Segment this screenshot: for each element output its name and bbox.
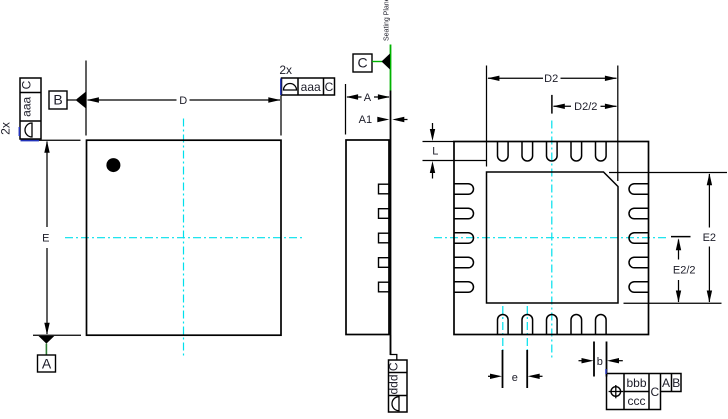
- feature control frame top right (profile aaa C): [282, 78, 335, 95]
- dimension A line: [346, 94, 390, 99]
- datum B symbol: [49, 91, 86, 109]
- svg-text:2x: 2x: [279, 63, 292, 77]
- bottom edge terminals: [498, 314, 607, 334]
- svg-text:D2/2: D2/2: [574, 101, 597, 113]
- svg-text:E2: E2: [703, 232, 716, 244]
- svg-text:e: e: [512, 372, 518, 384]
- svg-text:b: b: [597, 356, 603, 368]
- dimension D2/2 extension tick: [551, 95, 553, 114]
- count label 2x top right: [279, 63, 292, 77]
- svg-text:A: A: [662, 376, 670, 390]
- svg-text:B: B: [672, 376, 680, 390]
- feature control frame bottom (profile ddd C): [387, 360, 408, 412]
- dimension E2/2 line: [676, 238, 681, 302]
- svg-text:L: L: [432, 146, 438, 158]
- dimension L arrows: [430, 123, 435, 179]
- dimension D label: [179, 95, 187, 107]
- dimension e label: [512, 372, 518, 384]
- side view body outline: [346, 140, 389, 335]
- svg-text:ddd: ddd: [387, 374, 401, 394]
- top view: vertical centerline: [183, 119, 185, 357]
- bottom view: horizontal centerline: [434, 237, 668, 239]
- top view: horizontal centerline: [65, 237, 302, 239]
- dimension D extension line right: [280, 96, 282, 136]
- dimension A label: [364, 92, 372, 104]
- dimension A1 label: [359, 114, 372, 126]
- dimension D line: [87, 97, 280, 102]
- dimension L extension lines: [423, 142, 487, 161]
- dimension E extension line bottom: [33, 334, 81, 336]
- dimension D2/2 label: [574, 101, 597, 113]
- svg-text:A: A: [364, 92, 372, 104]
- svg-text:aaa: aaa: [20, 96, 34, 116]
- bottom view package outline: [454, 142, 649, 335]
- svg-text:E2/2: E2/2: [673, 265, 696, 277]
- datum C symbol: [353, 54, 390, 73]
- svg-text:E: E: [42, 232, 49, 244]
- svg-text:C: C: [357, 55, 367, 71]
- svg-text:Seating Plane: Seating Plane: [384, 0, 391, 41]
- count label 2x left (rotated): [0, 122, 13, 135]
- svg-text:D: D: [179, 95, 187, 107]
- dimension E2/2 label: [673, 265, 696, 277]
- dimension E2 extension lines: [609, 173, 727, 304]
- pin 1 index dot: [106, 158, 120, 172]
- dimension b extension lines: [594, 342, 607, 377]
- terminal 1 centerline: [502, 306, 504, 352]
- dimension E2 label: [703, 232, 716, 244]
- position tolerance frame (bbb ccc C A B): [607, 374, 682, 410]
- svg-text:C: C: [20, 80, 34, 89]
- terminal 2 centerline: [526, 306, 528, 352]
- svg-text:C: C: [325, 80, 334, 94]
- svg-text:A1: A1: [359, 114, 372, 126]
- seating plane line: [390, 45, 392, 356]
- side view terminals: [379, 184, 391, 292]
- svg-text:C: C: [387, 362, 401, 371]
- dimension E extension line top: [21, 139, 81, 141]
- dimension b arrows: [579, 358, 623, 363]
- dimension E2/2 extension tick: [671, 236, 691, 238]
- svg-text:A: A: [42, 355, 52, 371]
- top edge terminals: [498, 142, 607, 162]
- leader to ddd frame: [391, 335, 397, 360]
- dimension D2 label: [544, 73, 558, 85]
- blue tick at top right frame: [280, 79, 282, 96]
- dimension D2 line: [487, 76, 617, 81]
- dimension L label: [432, 146, 438, 158]
- dimension b label: [597, 356, 603, 368]
- top view package body outline: [87, 140, 282, 335]
- right edge terminals: [629, 184, 649, 293]
- blue tick marks at left frame: [19, 127, 39, 141]
- exposed pad outline with pin1 chamfer: [487, 172, 619, 303]
- svg-text:2x: 2x: [0, 122, 13, 135]
- dimension E2 line: [707, 173, 712, 302]
- svg-text:bbb: bbb: [626, 376, 646, 390]
- dimension D2/2 line: [553, 104, 617, 109]
- dimension E line: [44, 141, 49, 335]
- left edge terminals: [454, 184, 474, 293]
- blue tick at position frame: [605, 369, 607, 374]
- svg-text:D2: D2: [544, 73, 558, 85]
- dimension A extension line: [345, 84, 347, 135]
- datum A symbol: [38, 336, 56, 372]
- svg-text:ccc: ccc: [628, 394, 646, 408]
- dimension D extension line left: [85, 61, 87, 136]
- dimension e arrows: [488, 374, 543, 379]
- seating plane label: [384, 0, 391, 41]
- feature control frame left (profile aaa C): [20, 78, 42, 139]
- dimension E label: [42, 232, 49, 244]
- svg-text:B: B: [53, 92, 62, 108]
- bottom view: vertical centerline: [551, 121, 553, 358]
- dimension D2 extension lines: [487, 66, 618, 182]
- dimension A1 arrows: [377, 117, 407, 122]
- svg-text:C: C: [650, 385, 659, 399]
- svg-text:aaa: aaa: [301, 80, 321, 94]
- dimension e extension lines: [503, 350, 528, 388]
